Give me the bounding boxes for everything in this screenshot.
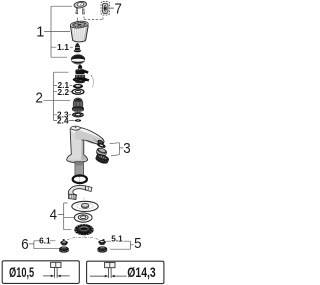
bracket 1 [44,6,73,57]
svg-text:2: 2 [36,91,43,107]
bracket 6 [29,241,59,249]
gasket washer [74,213,92,222]
svg-text:6.1: 6.1 [39,236,51,246]
faucet body column [67,129,88,163]
rotation arc [91,76,93,88]
svg-text:1.1: 1.1 [57,42,69,52]
svg-text:Ø10,5: Ø10,5 [9,265,34,281]
cartridge (part 2 top) [73,64,90,83]
mounting nut [74,224,93,236]
body seat ellipse [71,126,81,130]
disc 2.4 [75,119,81,122]
stud 5.1 [98,239,106,245]
screw 1.1 [74,43,81,52]
svg-text:Ø14,3: Ø14,3 [127,265,155,281]
left stud icon [43,262,70,277]
horseshoe spacer [68,185,92,199]
svg-text:5.1: 5.1 [111,233,123,243]
knob bottom rim [73,40,86,42]
svg-text:1: 1 [36,25,44,41]
knob body (part 1) [70,25,88,42]
center dash below shank [79,177,81,185]
threaded shank [75,162,84,177]
bracket 5 [106,241,134,249]
svg-text:4: 4 [50,207,57,223]
washer 2.3 [72,113,83,118]
bracket 4 [58,203,74,230]
stud 6.1 [60,239,68,246]
right dimension box [87,261,164,283]
ring 2.2 [72,89,84,94]
center dash above washer [83,198,85,202]
knob top face [70,20,88,28]
aerator axis dashes [101,144,103,162]
svg-text:7: 7 [115,2,122,18]
left dimension box [2,261,79,284]
dash cap to knob [76,18,78,21]
right stud icon [90,263,127,278]
axis dash-dot between studs [67,237,99,240]
aerator housing (3 bottom) [95,153,110,166]
part 7 tool [102,3,108,13]
svg-text:2.2: 2.2 [58,87,70,97]
connector cap to box 7 [84,9,103,20]
svg-text:6: 6 [21,237,28,253]
o-ring 2.1 [73,84,83,88]
aerator o-ring (3 top) [96,142,106,149]
spout blade [75,128,104,145]
nut 5 [97,246,107,253]
svg-text:2.4: 2.4 [57,116,69,126]
nut 6 [59,247,69,254]
bracket 2 [44,72,75,120]
cap (part 1 top) [74,1,87,9]
dash to label 7 [110,7,114,9]
part 7 dashed box [101,2,110,15]
cap legs [76,8,85,14]
retainer cylinder [72,98,84,112]
center dash below nut [83,236,85,238]
aerator insert (3 middle) [95,147,107,158]
svg-text:3: 3 [123,141,130,157]
bracket 3 [110,143,124,156]
o-ring under base [73,175,87,183]
washer large [72,201,98,211]
spout outlet [97,139,105,146]
svg-text:5: 5 [134,236,141,252]
dome cap [71,53,85,64]
